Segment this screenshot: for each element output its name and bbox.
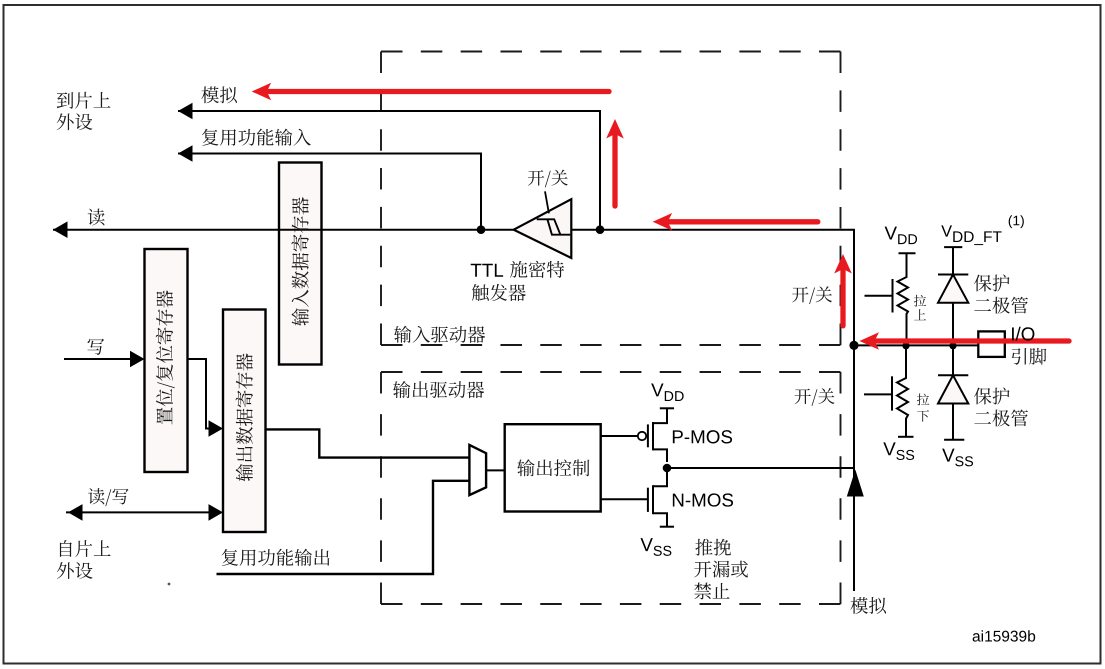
node: push-pull output — [663, 464, 672, 473]
wire: output data register to mux — [266, 429, 470, 457]
label: from on-chip peripheral 自片上外设 — [57, 540, 111, 579]
node: schmitt input junction — [596, 225, 605, 234]
label: VSS pull-down — [883, 442, 914, 460]
node: diode junction — [949, 342, 956, 349]
pull-up resistor with switch (拉上) — [865, 253, 916, 345]
label: alternate function input 复用功能输入 — [202, 129, 311, 146]
label: alternate function output 复用功能输出 — [222, 549, 330, 566]
label: IO pin I/O 引脚 — [1012, 327, 1034, 341]
node: schmitt output junction — [477, 225, 486, 234]
label: output driver 输出驱动器 — [393, 381, 484, 398]
label: input driver 输入驱动器 — [394, 326, 485, 343]
mux trapezoid — [469, 445, 486, 495]
register box: input data register 输入数据寄存器 — [279, 163, 322, 365]
label: on/off right lower 开/关 — [795, 388, 835, 406]
label: VDD_FT with note (1) — [941, 225, 1001, 245]
label: on/off right upper 开/关 — [792, 286, 832, 304]
box: output control 输出控制 — [505, 424, 601, 511]
arrowhead into output data register — [209, 420, 224, 437]
label: analog 模拟 (top) — [201, 86, 237, 103]
label: figure id ai15939b — [973, 630, 1036, 641]
P-MOS gate bubble — [638, 432, 646, 440]
arrowhead AF input left — [178, 145, 193, 162]
red analog path arrow top — [266, 89, 609, 94]
hysteresis symbol — [537, 219, 571, 234]
wire: read line through schmitt to IO column — [53, 230, 854, 591]
arrowhead read left — [53, 221, 68, 238]
transistor N-MOS — [648, 472, 674, 527]
transistor P-MOS — [648, 408, 674, 462]
arrowhead analog left — [178, 103, 193, 120]
wire: set/reset reg to output data reg — [188, 359, 211, 429]
wire: mux to output control — [486, 469, 505, 471]
label: pull-up 拉上 (vertical) — [914, 295, 926, 320]
arrowhead read/write left — [68, 504, 83, 521]
wire: output control to N-MOS gate — [601, 498, 648, 500]
red arrow from IO pin — [873, 338, 1069, 343]
label: read 读 — [88, 209, 105, 226]
red arrow up inside input driver — [612, 133, 617, 206]
protection diode bottom — [938, 345, 968, 439]
register label: input data register 输入数据寄存器 (rotated) — [291, 197, 308, 326]
label: write 写 — [87, 339, 104, 355]
wire: IO horizontal line — [854, 344, 978, 346]
label: N-MOS — [673, 493, 733, 506]
node: pullup junction — [902, 342, 909, 349]
label: on/off above schmitt 开/关 — [528, 170, 568, 188]
pull-down resistor with switch (拉下) — [864, 345, 914, 436]
label: VDD pmos — [651, 383, 683, 401]
label: P-MOS — [673, 430, 732, 443]
schmitt trigger triangle — [514, 199, 572, 258]
label: VDD pull-up — [885, 227, 917, 245]
label: pull-down 拉下 (vertical) — [917, 394, 929, 422]
red arrow up at IO column — [840, 268, 845, 326]
register box: set/reset register 置位/复位寄存器 — [145, 249, 188, 472]
protection diode top — [938, 247, 968, 345]
IO pin square — [978, 331, 1005, 357]
wire: alternate function output to mux — [217, 481, 470, 574]
wire: write input — [64, 358, 132, 360]
label: TTL schmitt trigger — [471, 264, 503, 277]
label: read/write 读/写 — [88, 488, 128, 506]
label: analog bottom 模拟 — [850, 597, 886, 614]
node: main IO junction — [849, 341, 858, 350]
dashed box: output driver 输出驱动器 — [381, 372, 841, 604]
register label: set/reset register 置位/复位寄存器 (rotated) — [156, 290, 175, 424]
dashed box: input driver 输入驱动器 — [381, 52, 841, 346]
arrowhead: up triangle on IO column — [847, 470, 864, 497]
label: output control 输出控制 — [517, 459, 589, 476]
wire: read/write double arrow — [66, 511, 211, 513]
label: protection diode upper 保护二极管 — [974, 274, 1028, 313]
arrowhead read/write right — [209, 504, 224, 521]
arrowhead write right — [130, 351, 145, 368]
label: VSS diode — [942, 449, 973, 467]
stray dot artifact — [168, 583, 171, 586]
label: VSS nmos — [640, 538, 671, 556]
wire: alternate function input line — [178, 154, 481, 230]
schmitt switch control line — [545, 191, 549, 213]
red arrow left on read line — [666, 219, 818, 224]
wire: output control to P-MOS gate — [601, 435, 638, 437]
register label: output data register 输出数据寄存器 (rotated) — [236, 353, 253, 481]
wire: analog line to on-chip peripherals — [178, 111, 600, 230]
label: push-pull/open-drain/disabled — [694, 539, 748, 600]
register box: output data register 输出数据寄存器 — [223, 310, 266, 533]
wire: mos output to IO column — [667, 467, 854, 469]
label: protection diode lower 保护二极管 — [974, 387, 1028, 426]
label: to on-chip peripheral 到片上外设 — [57, 92, 111, 130]
